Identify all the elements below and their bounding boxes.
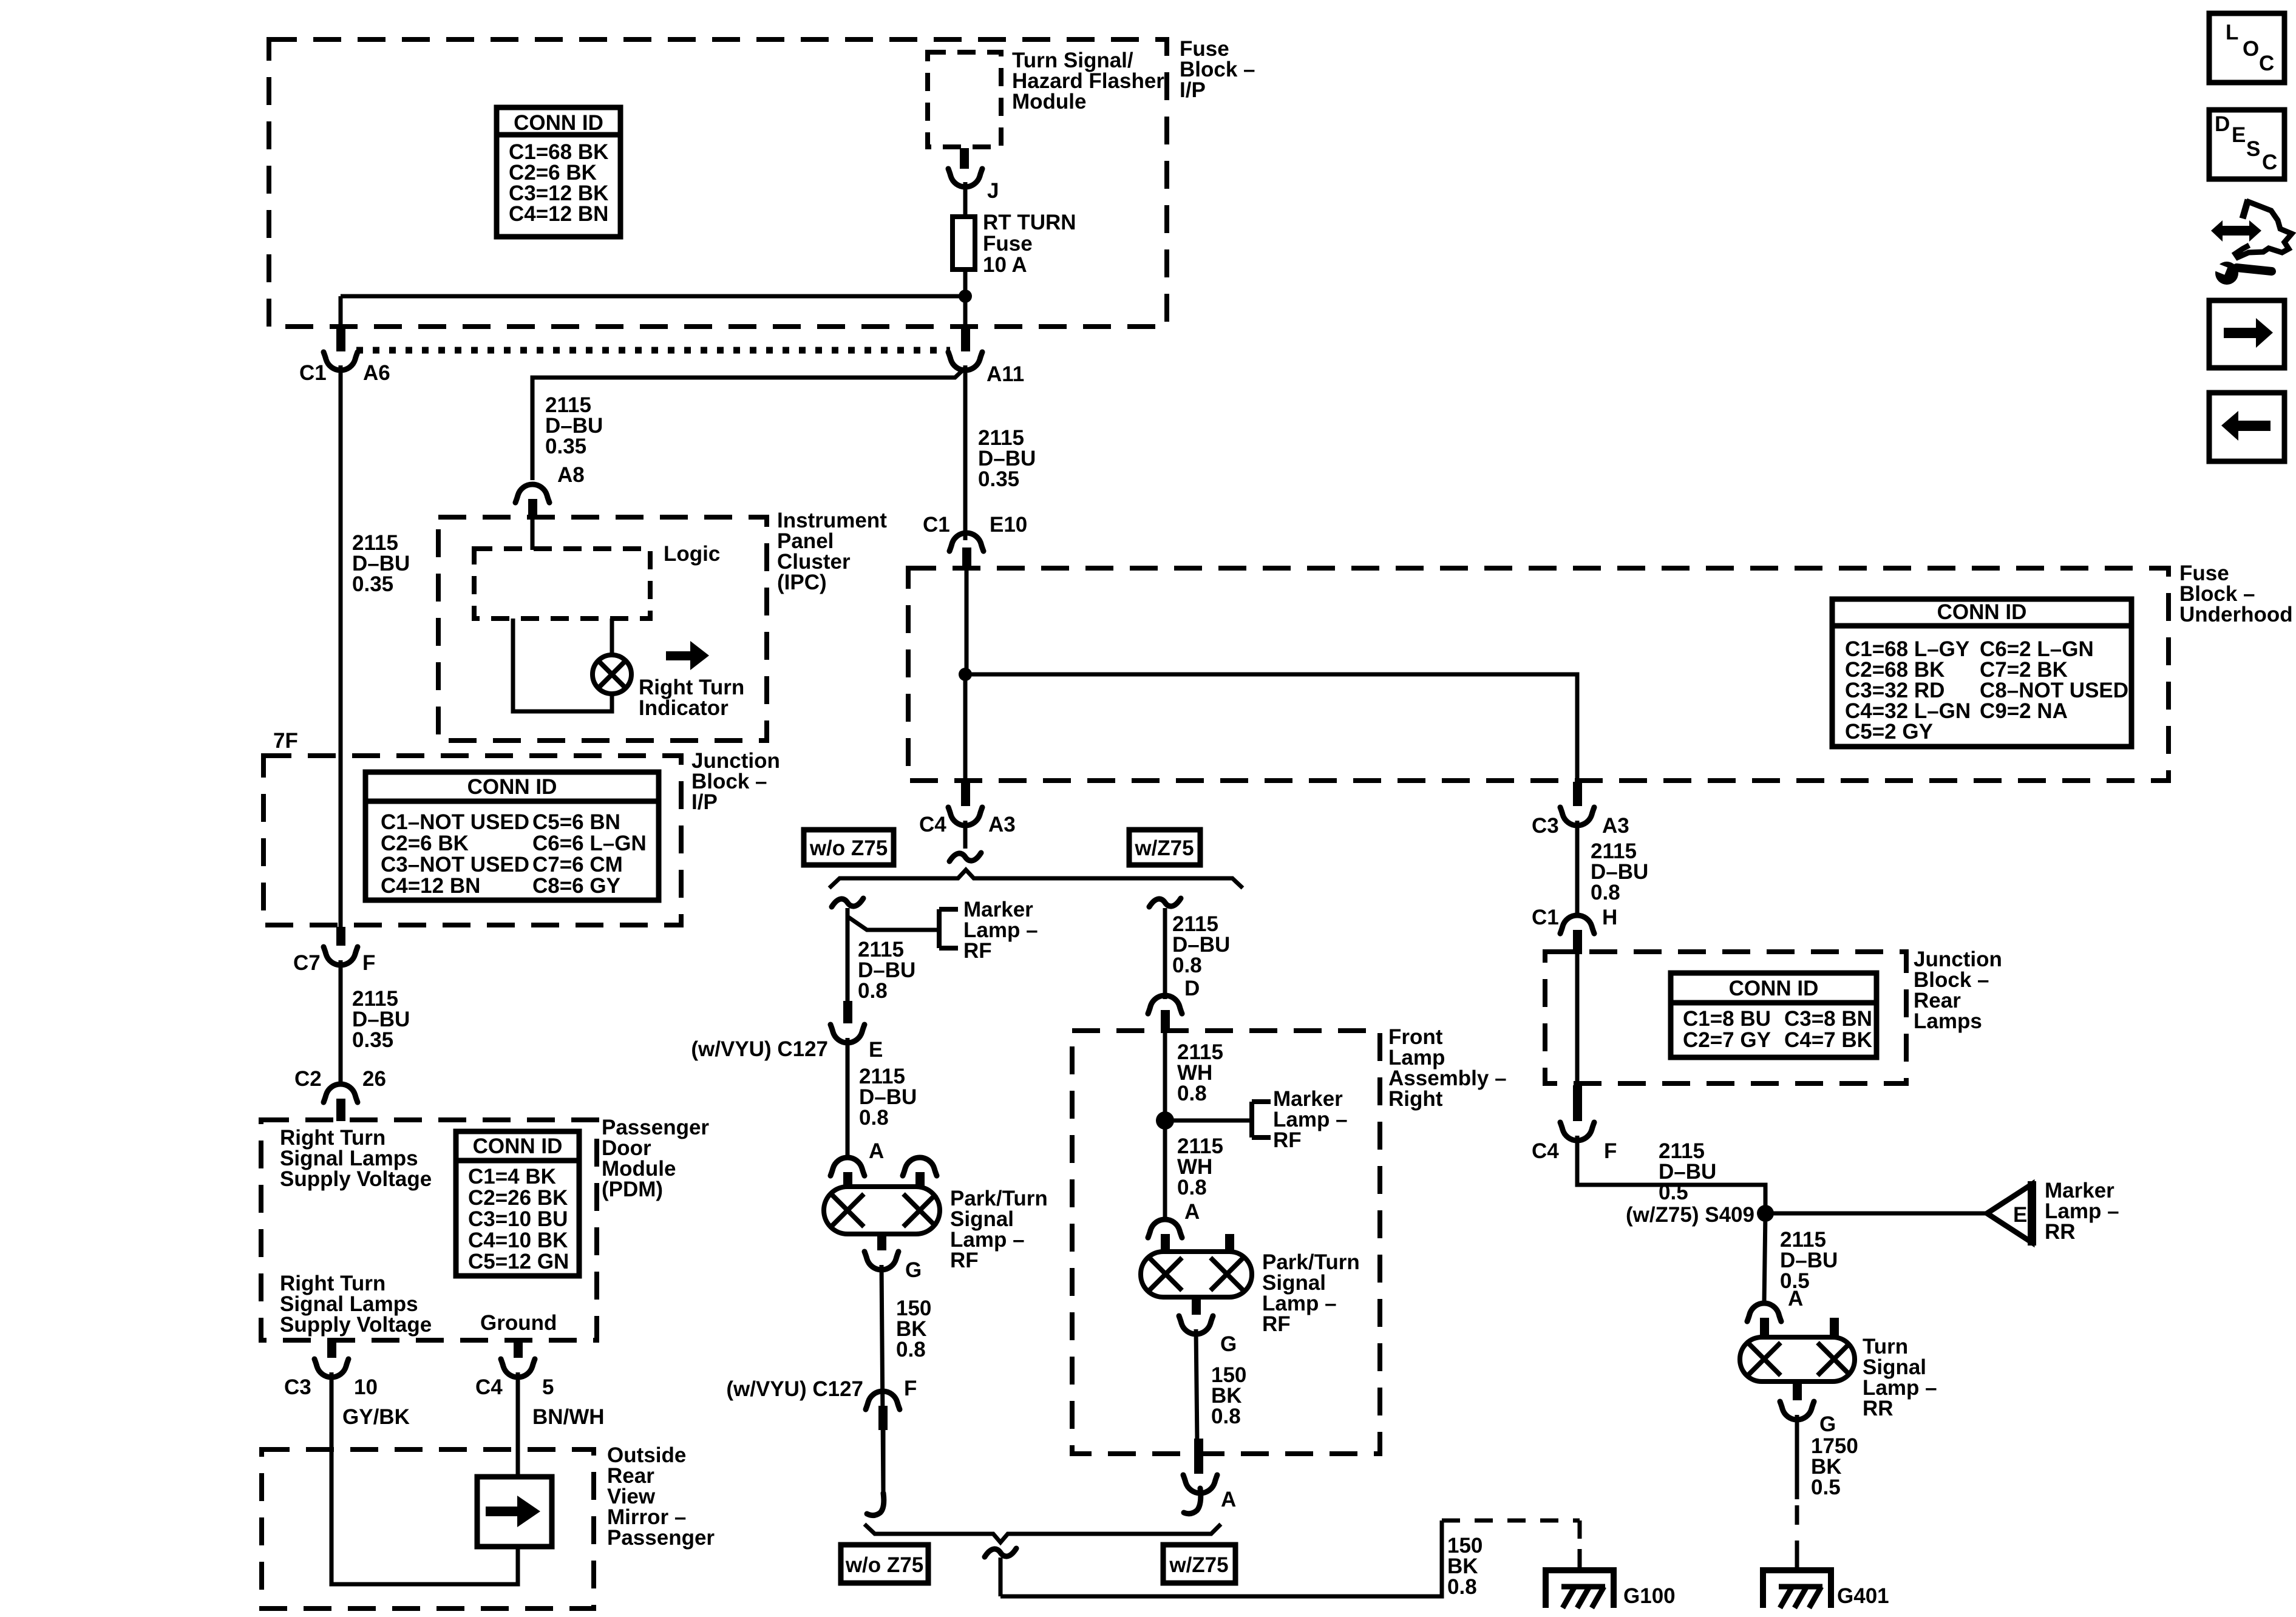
svg-text:CONN ID: CONN ID xyxy=(1729,977,1819,1000)
svg-text:C3: C3 xyxy=(1532,814,1559,838)
CONN ID table junction block I/P xyxy=(365,772,659,900)
branch wire to A8 xyxy=(532,368,965,480)
svg-text:J: J xyxy=(987,179,999,203)
svg-text:(w/VYU) C127: (w/VYU) C127 xyxy=(691,1037,828,1061)
svg-text:A3: A3 xyxy=(1602,814,1629,838)
CONN ID table underhood xyxy=(1832,599,2131,747)
wire junction to A6 drop xyxy=(341,294,965,299)
pin below lamp 2 xyxy=(1192,1297,1201,1315)
svg-text:C2=6 BK: C2=6 BK xyxy=(381,832,469,855)
svg-text:Fuse: Fuse xyxy=(983,232,1033,256)
outside rear view mirror dashed box xyxy=(262,1449,594,1609)
pin J from module xyxy=(960,148,969,169)
svg-text:CONN ID: CONN ID xyxy=(514,111,603,135)
svg-text:Supply Voltage: Supply Voltage xyxy=(280,1313,432,1337)
svg-text:G100: G100 xyxy=(1623,1584,1676,1608)
svg-text:0.8: 0.8 xyxy=(1447,1575,1477,1599)
svg-text:0.8: 0.8 xyxy=(896,1338,926,1361)
svg-text:0.35: 0.35 xyxy=(352,1028,393,1052)
svg-text:C2=26 BK: C2=26 BK xyxy=(468,1186,568,1210)
pin D into front lamp assembly xyxy=(1161,1010,1170,1031)
connector C4 A3 xyxy=(948,807,982,825)
wire C3 to C1 H xyxy=(1575,821,1580,918)
ground G401 xyxy=(1763,1570,1831,1608)
park/turn signal lamp RF w/o Z75 xyxy=(824,1187,940,1234)
svg-text:D: D xyxy=(1184,977,1200,1000)
wire junction to lamp A xyxy=(1163,1120,1167,1218)
svg-text:C2: C2 xyxy=(294,1067,322,1091)
svg-text:Right: Right xyxy=(1388,1087,1443,1111)
split brace top xyxy=(829,870,1243,888)
connector C3 A3 right xyxy=(1560,807,1594,825)
svg-text:A6: A6 xyxy=(363,361,390,385)
hook end w/o Z75 ground branch xyxy=(867,1493,884,1516)
wire J to fuse xyxy=(963,182,968,217)
marker lamp RF bracket xyxy=(937,909,942,948)
hop below bottom brace xyxy=(985,1548,1016,1557)
wire C127 to bottom hook xyxy=(881,1430,886,1496)
wire merge down xyxy=(999,1558,1003,1596)
svg-text:(IPC): (IPC) xyxy=(777,571,827,594)
w/o Z75 branch wire xyxy=(846,908,850,1002)
svg-text:I/P: I/P xyxy=(691,790,718,814)
svg-text:C1–NOT USED: C1–NOT USED xyxy=(381,810,529,834)
dotted connector face line xyxy=(356,347,950,354)
dashed wire to G401 xyxy=(1795,1505,1799,1554)
pin C4 out of PDM xyxy=(514,1341,523,1358)
wire 150 BK 0.8 lamp2 xyxy=(1196,1329,1197,1442)
marker lamp RF stub wire xyxy=(847,917,939,930)
svg-text:C5=12 GN: C5=12 GN xyxy=(468,1250,569,1273)
hook left branch xyxy=(832,898,863,907)
right turn indicator lamp circle xyxy=(593,655,631,694)
connector C127 w/VYU xyxy=(830,1025,864,1043)
svg-text:CONN ID: CONN ID xyxy=(473,1134,563,1158)
wire fuse to junction xyxy=(963,269,968,330)
svg-text:0.35: 0.35 xyxy=(545,435,586,458)
pin C7 from junction block xyxy=(336,927,345,946)
option box w/Z75 top xyxy=(1129,830,1200,865)
ground G100 xyxy=(1546,1570,1614,1608)
svg-text:C2=7 GY: C2=7 GY xyxy=(1683,1028,1771,1052)
passenger door module dashed box xyxy=(261,1120,597,1340)
junction dot below fuse xyxy=(959,290,972,303)
pin C4 F rear xyxy=(1573,1085,1582,1121)
connector A8 dome xyxy=(515,484,549,503)
svg-text:RF: RF xyxy=(1273,1128,1302,1152)
svg-text:CONN ID: CONN ID xyxy=(1937,600,2027,624)
connector C1 E10 dome xyxy=(949,533,983,551)
instrument panel cluster dashed box xyxy=(438,517,767,741)
pins into park/turn lamp RF xyxy=(843,1172,852,1189)
svg-text:E: E xyxy=(2013,1203,2027,1227)
dashed wire to G100 xyxy=(1442,1519,1580,1523)
w/Z75 branch wire xyxy=(1163,908,1167,999)
svg-text:A: A xyxy=(1788,1287,1803,1310)
right turn indicator arrow icon xyxy=(666,651,690,660)
connector C4 F rear xyxy=(1560,1122,1594,1141)
svg-text:RF: RF xyxy=(950,1249,979,1272)
marker lamp RF stub wire 2 xyxy=(1165,1119,1252,1123)
svg-text:C8=6 GY: C8=6 GY xyxy=(532,874,620,898)
svg-text:E: E xyxy=(869,1038,883,1062)
svg-text:C4: C4 xyxy=(919,813,946,836)
marker lamp RR triangle xyxy=(1987,1184,2032,1242)
svg-text:Underhood: Underhood xyxy=(2179,603,2293,626)
dome right pin park/turn RF lamp xyxy=(903,1158,937,1176)
svg-text:A: A xyxy=(1184,1200,1200,1224)
svg-text:C6=6 L–GN: C6=6 L–GN xyxy=(532,832,647,855)
wire BN/WH xyxy=(516,1372,520,1477)
connector C3 10 xyxy=(314,1359,348,1377)
svg-text:RT TURN: RT TURN xyxy=(983,211,1076,234)
S409 splice dot xyxy=(1757,1205,1774,1222)
connector A dome front lamp xyxy=(1148,1219,1182,1238)
icon right arrow box xyxy=(2209,300,2284,368)
svg-text:C3–NOT USED: C3–NOT USED xyxy=(381,853,529,876)
hook below connector A bottom xyxy=(1184,1488,1201,1514)
wire C127 to lamp xyxy=(846,1038,850,1156)
junction block rear lamps dashed box xyxy=(1545,952,1906,1083)
svg-text:C7=6 CM: C7=6 CM xyxy=(532,853,623,876)
svg-text:0.8: 0.8 xyxy=(1172,954,1202,977)
pin C127 upper xyxy=(843,1001,852,1023)
connector A bottom xyxy=(1183,1475,1217,1493)
svg-text:0.35: 0.35 xyxy=(352,572,393,596)
pin C4 A3 xyxy=(961,782,970,806)
wire junction to right column xyxy=(965,674,1577,783)
svg-text:C1: C1 xyxy=(1532,906,1559,929)
svg-text:0.8: 0.8 xyxy=(859,1106,889,1130)
svg-text:26: 26 xyxy=(362,1067,386,1091)
pin C127 lower xyxy=(878,1406,888,1430)
pin below RR lamp xyxy=(1793,1381,1802,1400)
svg-text:L: L xyxy=(2226,21,2238,44)
svg-text:C5=2 GY: C5=2 GY xyxy=(1845,720,1933,744)
svg-text:w/o Z75: w/o Z75 xyxy=(809,836,888,860)
wire 1750 BK 0.5 xyxy=(1795,1415,1799,1499)
svg-text:Logic: Logic xyxy=(664,542,720,566)
connector D dome xyxy=(1148,995,1182,1014)
connector A dome park/turn RF lamp xyxy=(830,1158,864,1176)
svg-text:C4=10 BK: C4=10 BK xyxy=(468,1229,568,1252)
wire 2115 D-BU from A6 down to junction block xyxy=(339,365,343,928)
CONN ID table fuse block I/P xyxy=(497,107,620,237)
svg-text:S: S xyxy=(2246,137,2260,161)
marker lamp RF bracket 2 xyxy=(1249,1102,1254,1137)
connector G lamp RF xyxy=(864,1252,898,1270)
wire E10 to junction xyxy=(965,571,969,674)
svg-text:7F: 7F xyxy=(273,729,298,753)
ground rail wire xyxy=(1000,1520,1442,1596)
wire A11 down to E10 xyxy=(963,365,968,540)
svg-text:(w/Z75) S409: (w/Z75) S409 xyxy=(1626,1203,1754,1227)
connector C1 A11 xyxy=(948,352,982,370)
connector A dome RR lamp xyxy=(1747,1303,1781,1321)
svg-text:Ground: Ground xyxy=(480,1311,557,1335)
svg-text:E10: E10 xyxy=(990,513,1027,537)
icon left arrow box xyxy=(2209,393,2284,461)
park/turn signal lamp RF w/Z75 xyxy=(1141,1252,1252,1297)
svg-text:C1=4 BK: C1=4 BK xyxy=(468,1165,556,1188)
svg-text:F: F xyxy=(362,951,375,975)
svg-text:(w/VYU) C127: (w/VYU) C127 xyxy=(726,1377,863,1401)
connector C1 A6 xyxy=(324,352,358,370)
option box w/Z75 bottom xyxy=(1163,1545,1235,1583)
wire D to junction xyxy=(1163,1029,1167,1120)
svg-text:E: E xyxy=(2232,123,2246,147)
svg-text:C7: C7 xyxy=(293,951,321,975)
wire 150 BK 0.8 down xyxy=(881,1265,883,1496)
turn signal / hazard flasher module box xyxy=(928,52,1001,147)
option box w/o Z75 top xyxy=(804,830,894,865)
connector J xyxy=(948,169,982,187)
junction block I/P dashed box xyxy=(263,756,681,925)
wire GY/BK xyxy=(331,1372,518,1584)
wire C4 F to S409 xyxy=(1577,1136,1765,1213)
wire A3 short xyxy=(963,821,968,849)
connector C2 dome xyxy=(324,1084,358,1102)
svg-text:C4: C4 xyxy=(1532,1139,1559,1163)
svg-text:F: F xyxy=(1604,1139,1617,1163)
svg-text:C5=6 BN: C5=6 BN xyxy=(532,810,620,834)
svg-text:w/o Z75: w/o Z75 xyxy=(845,1553,923,1577)
svg-text:RR: RR xyxy=(1863,1397,1894,1420)
svg-text:RF: RF xyxy=(963,939,992,963)
front lamp assembly dashed box xyxy=(1072,1031,1380,1454)
pin through front lamp box bottom xyxy=(1194,1439,1203,1474)
svg-text:C9=2 NA: C9=2 NA xyxy=(1980,699,2068,723)
junction dot marker branch xyxy=(1156,1111,1174,1130)
turn signal lamp RR xyxy=(1740,1337,1855,1381)
connector G RR lamp xyxy=(1780,1402,1814,1420)
svg-text:RR: RR xyxy=(2045,1220,2076,1244)
option box w/o Z75 bottom xyxy=(841,1545,928,1583)
svg-text:G401: G401 xyxy=(1837,1584,1889,1608)
svg-text:(PDM): (PDM) xyxy=(602,1178,663,1201)
connector C127 lower dome xyxy=(866,1391,900,1409)
svg-text:C3=8 BN: C3=8 BN xyxy=(1784,1007,1872,1031)
svg-text:C4=12 BN: C4=12 BN xyxy=(381,874,480,898)
svg-text:G: G xyxy=(1220,1332,1237,1356)
svg-text:O: O xyxy=(2243,37,2259,61)
pin A11 xyxy=(961,328,970,351)
CONN ID table rear lamps xyxy=(1671,973,1877,1057)
svg-text:10: 10 xyxy=(354,1375,378,1399)
svg-text:A3: A3 xyxy=(988,813,1016,836)
connector C4 5 xyxy=(501,1359,535,1377)
svg-text:H: H xyxy=(1602,906,1617,929)
svg-text:A8: A8 xyxy=(557,463,585,487)
svg-text:0.8: 0.8 xyxy=(1177,1082,1207,1105)
connector C7 F xyxy=(324,947,358,965)
svg-text:0.5: 0.5 xyxy=(1811,1476,1841,1499)
svg-text:C1: C1 xyxy=(299,361,327,385)
svg-text:G: G xyxy=(1819,1412,1836,1436)
svg-text:D: D xyxy=(2215,112,2230,136)
svg-text:Supply Voltage: Supply Voltage xyxy=(280,1167,432,1191)
pin C2 into PDM xyxy=(336,1099,345,1121)
connector G lamp 2 xyxy=(1179,1316,1213,1334)
pin below lamp RF xyxy=(877,1234,886,1250)
svg-text:F: F xyxy=(904,1377,917,1400)
mirror arrow xyxy=(486,1507,517,1516)
svg-text:10 A: 10 A xyxy=(983,253,1027,277)
wire inside rear junction block xyxy=(1575,954,1580,1086)
connector C1 H dome xyxy=(1560,915,1594,934)
CONN ID table PDM xyxy=(456,1131,579,1276)
svg-text:0.8: 0.8 xyxy=(1211,1405,1241,1428)
pin A8 into IPC xyxy=(528,499,537,517)
svg-text:w/Z75: w/Z75 xyxy=(1169,1553,1228,1577)
pin A6 xyxy=(336,328,345,351)
wire C7 to C2 xyxy=(339,960,343,1086)
fuse block I/P dashed box xyxy=(269,39,1167,327)
svg-text:C1=8 BU: C1=8 BU xyxy=(1683,1007,1771,1031)
mirror arrow box xyxy=(477,1477,552,1547)
pin C1 H into junction block rear xyxy=(1573,930,1582,954)
svg-text:CONN ID: CONN ID xyxy=(467,775,557,799)
wire S409 to marker lamp RR xyxy=(1765,1212,1987,1216)
wire S409 down xyxy=(1764,1213,1765,1302)
icon car with arrows and wrench xyxy=(2211,220,2261,242)
svg-text:C4=12 BN: C4=12 BN xyxy=(509,202,608,226)
hook right branch xyxy=(1149,898,1181,907)
svg-text:A11: A11 xyxy=(987,362,1024,386)
svg-text:C3=10 BU: C3=10 BU xyxy=(468,1207,568,1231)
fuse RT TURN 10A xyxy=(953,217,975,269)
pin C3 A3 right xyxy=(1573,782,1582,806)
svg-text:C3: C3 xyxy=(284,1375,311,1399)
wire logic right leg xyxy=(610,619,614,655)
pin C3 out of PDM xyxy=(327,1341,336,1358)
pins into park/turn lamp RF z75 xyxy=(1161,1234,1170,1252)
svg-text:C: C xyxy=(2262,151,2277,174)
svg-text:C4: C4 xyxy=(475,1375,503,1399)
svg-text:C4=7 BK: C4=7 BK xyxy=(1784,1028,1872,1052)
svg-text:Lamps: Lamps xyxy=(1914,1009,1982,1033)
svg-text:C1: C1 xyxy=(923,513,950,537)
svg-text:0.8: 0.8 xyxy=(858,979,888,1003)
svg-text:w/Z75: w/Z75 xyxy=(1134,836,1194,860)
svg-text:Passenger: Passenger xyxy=(607,1526,715,1550)
svg-text:A: A xyxy=(1221,1488,1236,1511)
svg-text:G: G xyxy=(905,1258,922,1282)
split brace bottom xyxy=(864,1524,1221,1542)
svg-text:RF: RF xyxy=(1262,1312,1291,1336)
icon LOC box xyxy=(2209,13,2284,83)
svg-text:GY/BK: GY/BK xyxy=(342,1405,410,1429)
wire A8 pin to logic box xyxy=(531,514,535,550)
icon DESC box xyxy=(2209,110,2284,179)
svg-text:C: C xyxy=(2259,52,2274,75)
pin E10 into underhood box xyxy=(962,547,971,571)
svg-text:A: A xyxy=(869,1139,884,1163)
pins into RR lamp xyxy=(1760,1318,1769,1337)
svg-text:0.8: 0.8 xyxy=(1591,881,1620,904)
fuse block underhood dashed box xyxy=(908,568,2169,781)
svg-text:Indicator: Indicator xyxy=(639,696,729,720)
svg-text:5: 5 xyxy=(542,1375,554,1399)
junction dot underhood xyxy=(959,668,972,681)
svg-text:I/P: I/P xyxy=(1180,78,1206,102)
svg-text:BN/WH: BN/WH xyxy=(532,1405,605,1429)
logic dashed box xyxy=(474,549,650,619)
svg-text:Module: Module xyxy=(1012,90,1086,114)
break symbol A3 xyxy=(949,853,981,861)
wire logic left leg xyxy=(513,619,612,711)
svg-text:0.35: 0.35 xyxy=(978,467,1019,491)
svg-text:0.8: 0.8 xyxy=(1177,1176,1207,1199)
